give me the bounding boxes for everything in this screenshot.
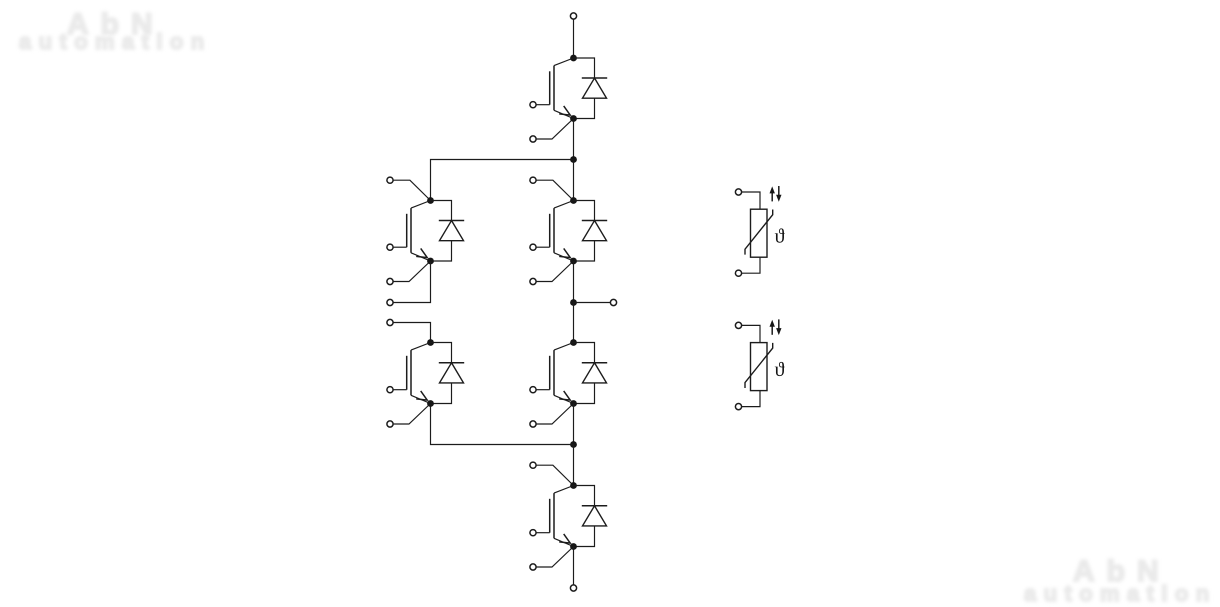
wire: NTC R1 top lead [742, 192, 760, 209]
diode D4 (anti-parallel) [574, 486, 608, 547]
terminal: DC- (bottom) [570, 585, 576, 591]
watermark top-left line 1 [67, 10, 165, 40]
auxiliary collector terminal of T2 [530, 177, 536, 183]
node: T5 emitter junction [427, 258, 434, 265]
wire: T1 emitter to node A [573, 119, 575, 160]
wire: T4 emitter to DC- terminal [573, 547, 575, 585]
wire: node B to T4 collector [573, 445, 575, 486]
node: T3 emitter junction [570, 400, 577, 407]
node: T4 collector junction [570, 482, 577, 489]
label: temperature symbol of R2 [775, 362, 785, 376]
wire: gate lead of T2 [536, 246, 550, 248]
watermark bottom-right line 2 [1024, 583, 1217, 605]
terminal: NTC R1 pin 1 [735, 189, 741, 195]
node: T5 collector junction [427, 197, 434, 204]
terminal: NTC R2 pin 2 [735, 404, 741, 410]
node: T2 emitter junction [570, 258, 577, 265]
terminal: AC output [610, 299, 616, 305]
wire: DC+ to T1 collector [573, 19, 575, 58]
wire: auxiliary collector lead of T4 [536, 465, 573, 485]
wire: T3 emitter to node B [573, 404, 575, 445]
wire: NTC R2 bottom lead [742, 391, 760, 407]
auxiliary collector terminal of T4 [530, 462, 536, 468]
gate terminal of T5 [387, 244, 393, 250]
auxiliary emitter terminal of T6 [387, 421, 393, 427]
wire: auxiliary collector lead of T5 [393, 180, 430, 200]
node: T4 emitter junction [570, 543, 577, 550]
watermark top-left line 2 [19, 31, 212, 53]
diode D3 (anti-parallel) [574, 343, 608, 404]
symbol: variability arrows of R1 [770, 186, 782, 202]
wire: AC node to T3 collector [573, 303, 575, 343]
gate terminal of T2 [530, 244, 536, 250]
wire: node A to T5 collector branch [431, 160, 574, 201]
watermark bottom-right line 1 [1073, 557, 1171, 587]
wire: node B to T6 emitter branch [431, 404, 574, 445]
wire: auxiliary emitter lead of T5 [393, 261, 430, 282]
gate terminal of T4 [530, 530, 536, 536]
label: temperature symbol of R1 [775, 228, 785, 242]
diode D1 (anti-parallel) [574, 58, 608, 119]
IGBT T4 [550, 486, 574, 547]
auxiliary collector terminal of T5 [387, 177, 393, 183]
symbol: variability arrows of R2 [770, 319, 782, 335]
auxiliary emitter terminal of T2 [530, 278, 536, 284]
terminal: DC+ (top) [570, 13, 576, 19]
terminal: NTC R2 pin 1 [735, 322, 741, 328]
wire: T2 emitter to AC node [573, 261, 575, 303]
IGBT T6 [407, 343, 431, 404]
auxiliary emitter terminal of T5 [387, 278, 393, 284]
node: T2 collector junction [570, 197, 577, 204]
node B (T3/T4 midpoint) [570, 441, 577, 448]
node: T6 collector junction [427, 339, 434, 346]
wire: auxiliary emitter lead of T4 [536, 547, 573, 568]
node: T1 emitter junction [570, 115, 577, 122]
diode D6 (anti-parallel) [431, 343, 465, 404]
thermistor R2 (NTC) [745, 343, 773, 391]
terminal: T5 emitter [387, 299, 393, 305]
gate terminal of T6 [387, 387, 393, 393]
wire: NTC R1 bottom lead [742, 257, 760, 273]
wire: NTC R2 top lead [742, 325, 760, 342]
node: T6 emitter junction [427, 400, 434, 407]
IGBT T3 [550, 343, 574, 404]
IGBT T2 [550, 201, 574, 262]
wire: auxiliary emitter lead of T3 [536, 404, 573, 425]
wire: T6 collector terminal to T6 collector [393, 323, 430, 343]
node A (T1/T2 midpoint) [570, 156, 577, 163]
wire: gate lead of T1 [536, 104, 550, 106]
IGBT T5 [407, 201, 431, 262]
auxiliary emitter terminal of T1 [530, 136, 536, 142]
auxiliary emitter terminal of T4 [530, 564, 536, 570]
auxiliary emitter terminal of T3 [530, 421, 536, 427]
wire: auxiliary collector lead of T2 [536, 180, 573, 200]
node: T3 collector junction [570, 339, 577, 346]
wire: gate lead of T3 [536, 389, 550, 391]
wire: gate lead of T6 [393, 389, 407, 391]
diode D2 (anti-parallel) [574, 201, 608, 262]
wire: auxiliary emitter lead of T6 [393, 404, 430, 425]
wire: auxiliary emitter lead of T2 [536, 261, 573, 282]
wire: auxiliary emitter lead of T1 [536, 119, 573, 140]
node: AC output junction [570, 299, 577, 306]
gate terminal of T1 [530, 102, 536, 108]
diode D5 (anti-parallel) [431, 201, 465, 262]
gate terminal of T3 [530, 387, 536, 393]
wire: gate lead of T4 [536, 532, 550, 534]
wire: AC node to AC terminal [574, 302, 611, 304]
node: T1 collector junction [570, 55, 577, 62]
wire: T5 emitter to its main terminal [393, 261, 430, 303]
IGBT T1 [550, 58, 574, 119]
terminal: NTC R1 pin 2 [735, 270, 741, 276]
terminal: T6 collector [387, 319, 393, 325]
wire: gate lead of T5 [393, 246, 407, 248]
thermistor R1 (NTC) [745, 209, 773, 257]
wire: node A to T2 collector [573, 160, 575, 201]
